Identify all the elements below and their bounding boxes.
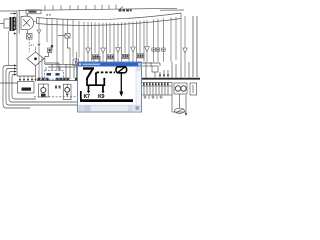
svg-text:d b: d b [46, 13, 51, 17]
svg-text:K7: K7 [84, 94, 90, 100]
svg-text:K9: K9 [98, 94, 104, 100]
